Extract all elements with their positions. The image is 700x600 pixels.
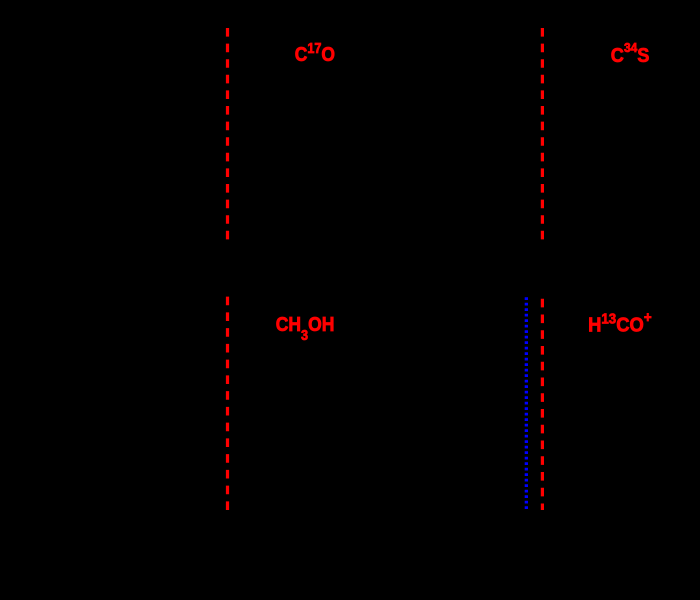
red dashed rest-velocity line, top-right panel (C34S)	[541, 28, 544, 240]
red dashed rest-velocity line, top-left panel (C17O)	[226, 28, 229, 240]
red dashed rest-velocity line, bottom-left panel (CH3OH)	[226, 297, 229, 510]
red dashed rest-velocity line, bottom-right panel (H13CO+)	[541, 297, 544, 510]
blue dotted velocity line, bottom-right panel	[525, 297, 528, 510]
